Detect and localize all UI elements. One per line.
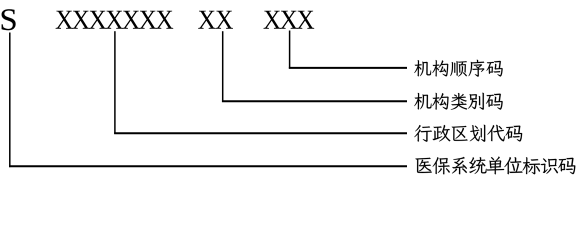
label 机构顺序码 bbox=[414, 60, 502, 77]
wire from XXX to label 机构顺序码 bbox=[289, 31, 407, 69]
wire from XX to label 机构类别码 bbox=[222, 31, 407, 102]
code digits group XXX (institution sequence digits) bbox=[263, 11, 314, 29]
label 机构类别码 bbox=[414, 93, 502, 110]
wire from XXXXXXX to label 行政区划代码 bbox=[114, 31, 407, 134]
label 医保系统单位标识码 bbox=[415, 156, 575, 174]
code prefix letter S bbox=[2, 9, 16, 30]
label 行政区划代码 bbox=[414, 125, 522, 142]
code digits group XXXXXXX (administrative division digits) bbox=[56, 11, 174, 29]
code digits group XX (institution category digits) bbox=[198, 11, 233, 29]
wire from S to label 医保系统单位标识码 bbox=[9, 33, 407, 168]
